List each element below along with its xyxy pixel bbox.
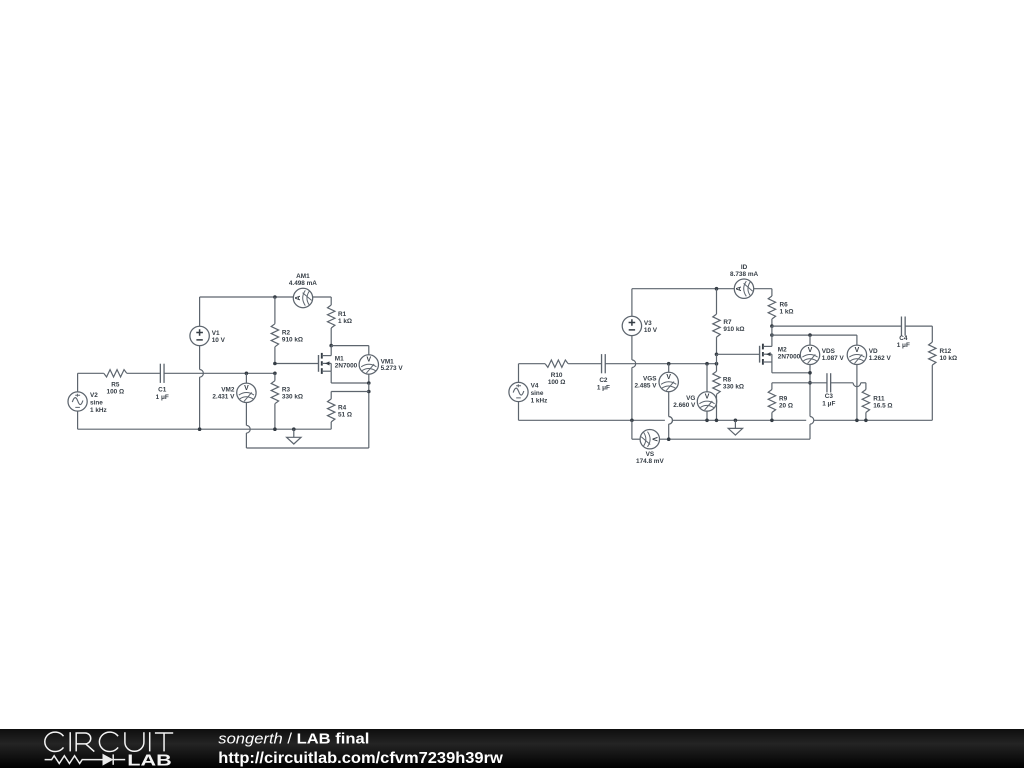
wire R10 to C2 [568,363,601,365]
svg-text:http://circuitlab.com/cfvm7239: http://circuitlab.com/cfvm7239h39rw [218,750,503,767]
svg-text:R1: R1 [338,311,347,318]
wire source tap to C3 [772,382,827,384]
svg-text:AM1: AM1 [296,273,310,280]
junction ground tap right [734,419,738,423]
wire C4 to R12 [905,325,932,327]
wire R8 bottom lead [716,394,718,420]
junction drain / meter wire [770,333,774,337]
capacitor C1 [159,364,161,383]
svg-text:1 kΩ: 1 kΩ [338,318,352,325]
svg-text:330 kΩ: 330 kΩ [723,384,744,391]
svg-text:LAB: LAB [127,753,171,768]
CircuitLab logo resistor-diode line [45,754,126,764]
wire R12 top lead [931,326,933,342]
wire VGS top lead [668,364,670,373]
svg-text:V: V [705,394,710,401]
svg-text:C1: C1 [158,387,167,394]
wire V4 top lead [518,364,520,383]
svg-text:2N7000: 2N7000 [778,354,801,361]
resistor R4 [328,399,335,422]
junction R4 tap [367,390,371,394]
wire drain node to VM1 [331,345,369,347]
svg-text:10 V: 10 V [212,337,226,344]
svg-text:VS: VS [646,451,655,458]
label R11 16.5 Ohm [873,395,892,409]
wire rail down to VS [631,420,633,439]
label VDS 1.087 V [822,348,845,362]
wire hop VGS column over ground rail [669,417,673,425]
svg-text:100 Ω: 100 Ω [548,379,566,386]
svg-text:330 kΩ: 330 kΩ [282,394,303,401]
wire R9 bottom lead [771,413,773,421]
svg-text:174.8 mV: 174.8 mV [636,458,664,465]
label R4 51 Ohm [338,405,352,419]
svg-text:1 kHz: 1 kHz [531,397,548,404]
voltage source V3 [622,316,641,335]
svg-text:910 kΩ: 910 kΩ [282,337,303,344]
junction VGS top [667,362,671,366]
junction source tap C3/R9 [808,381,812,385]
svg-text:V: V [666,374,671,381]
resistor R10 [545,360,568,367]
svg-text:V: V [366,357,371,364]
voltmeter VS [640,430,659,449]
svg-text:2.660 V: 2.660 V [673,402,696,409]
svg-text:10 V: 10 V [644,327,658,334]
label R1 1 kOhm [338,311,352,325]
svg-text:5.273 V: 5.273 V [381,365,404,372]
wire hop C3 wire over VD column [853,383,861,387]
svg-text:sine: sine [90,400,103,407]
svg-text:VD: VD [869,348,878,355]
voltmeter VDS [800,345,819,364]
svg-text:C2: C2 [599,377,608,384]
junction VM1 bottom / source [367,381,371,385]
svg-text:1.087 V: 1.087 V [822,355,845,362]
wire V3 top lead [631,289,633,317]
svg-text:1 μF: 1 μF [156,394,169,401]
wire drain column M2 [771,326,773,346]
voltmeter VGS [659,372,678,391]
wire top rail left (V1+ to AM1) [200,296,294,298]
svg-text:51 Ω: 51 Ω [338,412,352,419]
wire V4 to R10 [519,363,546,365]
transistor M1 (NMOS 2N7000) [319,353,332,374]
svg-text:V2: V2 [90,392,98,399]
svg-text:songerth / LAB final: songerth / LAB final [218,730,369,747]
wire ground rail right A [519,419,665,421]
svg-text:2.485 V: 2.485 V [634,383,657,390]
svg-text:VM2: VM2 [221,386,235,393]
svg-text:VDS: VDS [822,348,836,355]
capacitor C3 [826,373,828,392]
label VD 1.262 V [869,348,892,362]
junction V3 bottom [630,419,634,423]
svg-text:R6: R6 [780,302,789,309]
svg-text:V: V [651,437,658,442]
junction VG top [705,362,709,366]
wire VS meter to VDS column [660,438,811,440]
junction R9 bottom [770,419,774,423]
svg-text:8.738 mA: 8.738 mA [730,271,758,278]
resistor R12 [929,342,936,365]
wire R11 top lead [865,383,867,390]
svg-text:20 Ω: 20 Ω [779,402,793,409]
junction VDS top [808,333,812,337]
svg-text:R11: R11 [873,395,885,402]
wire R4 top tap [331,391,369,393]
svg-text:A: A [736,286,743,291]
junction VGS bottom / VS wire [667,437,671,441]
wire M2 source lead [771,362,773,373]
resistor R8 [713,371,720,394]
wire top rail left (AM1 to R1) [313,296,331,298]
label C3 1 uF [822,393,835,407]
svg-text:R10: R10 [551,372,563,379]
label R2 910 kOhm [282,330,303,344]
wire R3 bottom lead [274,404,276,430]
label C1 1 uF [156,387,169,401]
junction ground tap [292,427,296,431]
label R8 330 kOhm [723,377,744,391]
junction gate node [273,362,277,366]
junction R2 top [273,295,277,299]
voltage source V4 (sine) [509,382,528,401]
voltmeter VD [847,345,866,364]
svg-text:R8: R8 [723,377,732,384]
wire VM2 to VM1 bottom return [246,447,368,449]
wire R3 top lead [274,373,276,380]
wire drain column [330,346,332,356]
svg-text:1 kHz: 1 kHz [90,407,107,414]
wire VDS top lead [809,335,811,345]
junction R11 bottom [864,419,868,423]
label R5 100 Ohm [107,382,125,396]
label V1 10 V [212,330,226,344]
voltmeter VG [697,392,716,411]
junction M1 drain node [329,344,333,348]
wire R12 bottom lead [931,365,933,420]
wire V1 top lead [199,297,201,326]
svg-text:ID: ID [741,264,748,271]
label C2 1 uF [597,377,610,391]
label AM1 4.498 mA [289,273,317,287]
wire R9 top lead [771,383,773,390]
wire VG top lead [706,364,708,392]
voltage source V1 [190,326,209,345]
junction VG bottom [705,419,709,423]
svg-text:16.5 Ω: 16.5 Ω [873,402,892,409]
svg-text:1.262 V: 1.262 V [869,355,892,362]
resistor R3 [271,381,278,404]
svg-text:910 kΩ: 910 kΩ [723,326,744,333]
resistor R7 [713,314,720,337]
wire R2 bottom lead [274,347,276,364]
wire to VS meter left [632,438,640,440]
wire VM2 top lead [245,373,247,383]
wire drain node to VDS VD [772,334,857,336]
svg-text:R12: R12 [940,348,952,355]
voltmeter VM2 [237,383,256,402]
wire VM2 bottom lead (hops ground rail) [245,403,247,426]
label VGS 2.485 V [634,376,657,390]
svg-text:A: A [295,295,302,300]
svg-text:R5: R5 [111,382,120,389]
wire R2 top lead [274,297,276,324]
svg-text:2N7000: 2N7000 [335,363,358,370]
CircuitLab logo text CIRCUIT (drawn thin letters) [45,732,173,751]
wire R7 bottom lead [716,337,718,354]
wire hop VDS column over ground rail [810,417,814,425]
wire C3 to VD column [831,382,853,384]
junction VD bottom [855,419,859,423]
label V4 sine 1 kHz [531,382,548,404]
wire R11 bottom lead [865,413,867,421]
svg-text:100 Ω: 100 Ω [107,389,125,396]
wire VD top lead [856,335,858,345]
resistor R5 [104,370,127,377]
svg-text:R3: R3 [282,387,291,394]
capacitor C4 [900,317,902,336]
resistor R6 [768,296,775,319]
svg-text:10 kΩ: 10 kΩ [940,355,958,362]
junction signal/gate column [715,362,719,366]
label VM1 5.273 V [381,358,404,372]
wire R6 top lead [771,289,773,296]
label V2 sine 1 kHz [90,392,107,414]
voltmeter VM1 [359,355,378,374]
wire gate node to M2 gate [717,353,760,355]
wire source to VDS bottom [772,372,810,374]
label R7 910 kOhm [723,319,744,333]
transistor M2 (NMOS 2N7000) [760,344,772,365]
svg-text:V: V [244,385,249,392]
label R12 10 kOhm [940,348,958,362]
wire C2 to gate column [605,363,716,365]
wire source to output node [331,382,369,384]
svg-text:1 μF: 1 μF [897,342,910,349]
logo diode symbol [103,754,113,765]
svg-text:V: V [808,347,813,354]
svg-text:C3: C3 [825,393,834,400]
junction R3 bottom [273,427,277,431]
wire C1 to gate column [164,372,275,374]
svg-text:R7: R7 [723,319,732,326]
svg-text:2.431 V: 2.431 V [212,393,235,400]
svg-text:VGS: VGS [643,376,657,383]
svg-text:1 kΩ: 1 kΩ [780,309,794,316]
wire ground rail left circuit [78,428,332,430]
wire top rail right (ID to R6) [754,288,772,290]
svg-text:1 μF: 1 μF [597,384,610,391]
junction R8 bottom [715,419,719,423]
wire ground rail right C [814,419,933,421]
ground (right circuit) [728,420,742,435]
svg-text:4.498 mA: 4.498 mA [289,280,317,287]
wire top rail right (V3 to ID) [632,288,734,290]
label R10 100 Ohm [548,372,566,386]
wire V2 bottom lead [77,411,79,429]
wire output column down [368,383,370,448]
label VM2 2.431 V [212,386,235,400]
wire V3 bottom lead (hops signal wire) [631,336,633,360]
junction drain / C4 wire [770,324,774,328]
wire M1 source lead [330,371,332,383]
label V3 10 V [644,320,658,334]
voltage source V2 (sine) [68,392,87,411]
wire R6 bottom lead [771,319,773,326]
junction gate node right [715,353,719,357]
wire VDS column to VS wire [809,424,811,439]
svg-text:R2: R2 [282,330,291,337]
wire VGS bottom lead (hops ground rail) [668,392,670,417]
svg-text:C4: C4 [899,335,908,342]
junction VDS bottom / source [808,371,812,375]
wire R1 top lead [330,297,332,305]
svg-text:R9: R9 [779,395,788,402]
ammeter ID [734,279,753,298]
svg-text:R4: R4 [338,405,347,412]
label R6 1 kOhm [780,302,794,316]
label M2 2N7000 [778,347,801,361]
wire drain node to C4 [772,325,902,327]
svg-text:M1: M1 [335,356,344,363]
wire gate column [716,354,718,371]
label VS 174.8 mV [636,451,664,465]
resistor R2 [271,324,278,347]
junction VM2 top [245,372,249,376]
wire to R11 top [861,382,866,384]
label M1 2N7000 [335,356,358,370]
wire R4 top lead [330,392,332,399]
svg-text:1 μF: 1 μF [822,400,835,407]
wire V4 bottom lead [518,402,520,421]
wire VM1 top lead [368,346,370,355]
svg-text:VG: VG [686,395,695,402]
wire R7 top lead [716,289,718,314]
wire V1 bottom lead (hops signal wire) [199,346,201,370]
label C4 1 uF [897,335,910,349]
junction V1 bottom [198,427,202,431]
wire R1 bottom lead [330,328,332,346]
ground (left circuit) [287,429,301,444]
wire VDS bottom column [809,365,811,417]
wire R5 to C1 [127,372,161,374]
label R3 330 kOhm [282,387,303,401]
ammeter AM1 [293,288,312,307]
wire VM1 bottom lead [368,374,370,383]
wire V2 to R5 [78,372,104,374]
resistor R11 [862,390,869,413]
svg-text:sine: sine [531,390,544,397]
label R9 20 Ohm [779,395,793,409]
junction signal/gate column [273,372,277,376]
label ID 8.738 mA [730,264,758,278]
svg-text:V4: V4 [531,382,539,389]
svg-text:V: V [855,347,860,354]
wire ground rail right B [673,419,807,421]
wire R4 bottom lead [330,422,332,429]
svg-text:M2: M2 [778,347,787,354]
capacitor C2 [601,354,603,373]
resistor R9 [768,390,775,413]
wire gate node to M1 gate [275,363,319,365]
wire VG bottom lead [706,411,708,420]
resistor R1 [328,305,335,328]
wire VD bottom lead [856,365,858,421]
label VG 2.660 V [673,395,696,409]
wire V2 top lead [77,373,79,392]
junction R7 top [715,287,719,291]
